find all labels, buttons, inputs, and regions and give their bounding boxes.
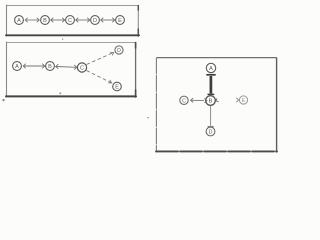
svg-text:A: A	[17, 18, 21, 24]
wire B-C with double arrowheads (box1)	[51, 18, 65, 23]
node E right, faint (box3)	[239, 96, 247, 104]
arrowhead into node D (box3)	[208, 126, 214, 128]
node A (box1)	[15, 16, 24, 25]
box 1 frame (chain topology panel)	[6, 5, 139, 36]
svg-text:C: C	[80, 66, 84, 72]
arrowhead into node E (box3)	[236, 98, 239, 102]
svg-text:E: E	[118, 18, 122, 24]
svg-text:D: D	[117, 48, 121, 54]
wire A-B with double arrowheads (box2)	[23, 64, 45, 69]
node C (box1)	[66, 16, 75, 25]
wire B-C with double arrowheads (box2)	[56, 64, 77, 69]
thick wire A-B hub (box3)	[206, 75, 215, 95]
svg-text:D: D	[209, 130, 213, 136]
svg-text:A: A	[15, 64, 19, 70]
node E (box2)	[113, 82, 122, 91]
svg-text:E: E	[115, 85, 119, 91]
svg-text:C: C	[68, 18, 72, 24]
hub side tick marks (box3)	[204, 98, 218, 102]
wire C-D with double arrowheads (box1)	[76, 18, 90, 23]
svg-text:E: E	[242, 98, 246, 104]
dashed wire C-E (box2, down-right)	[87, 71, 112, 83]
node C left (box3)	[180, 96, 188, 104]
node D (box2)	[115, 46, 123, 54]
node A (box2)	[13, 62, 22, 71]
svg-text:A: A	[209, 66, 213, 72]
dashed wire C-D (box2, up-right)	[87, 52, 114, 64]
node D (box1)	[91, 16, 100, 25]
svg-text:B: B	[48, 64, 52, 70]
wire B hub-D bottom (box3)	[210, 106, 212, 126]
node B (box1)	[41, 16, 50, 25]
node A top (box3)	[206, 63, 215, 72]
svg-text:D: D	[93, 18, 97, 24]
svg-text:B: B	[209, 99, 213, 105]
node C hub (box2)	[77, 63, 86, 72]
node E (box1)	[116, 16, 125, 25]
wire D-E with double arrowheads (box1)	[101, 18, 115, 23]
box 2 frame (tree topology panel)	[6, 42, 136, 97]
node B (box2)	[46, 62, 55, 71]
wire A-B with double arrowheads (box1)	[25, 18, 39, 23]
stray scan speckles	[3, 39, 149, 119]
svg-text:B: B	[43, 18, 47, 24]
wire C-B hub with double arrowheads (box3)	[191, 98, 204, 102]
node D bottom (box3)	[206, 127, 215, 136]
node B hub center (box3)	[206, 96, 216, 106]
box 3 frame (star topology panel)	[156, 58, 277, 152]
svg-text:C: C	[182, 98, 186, 104]
